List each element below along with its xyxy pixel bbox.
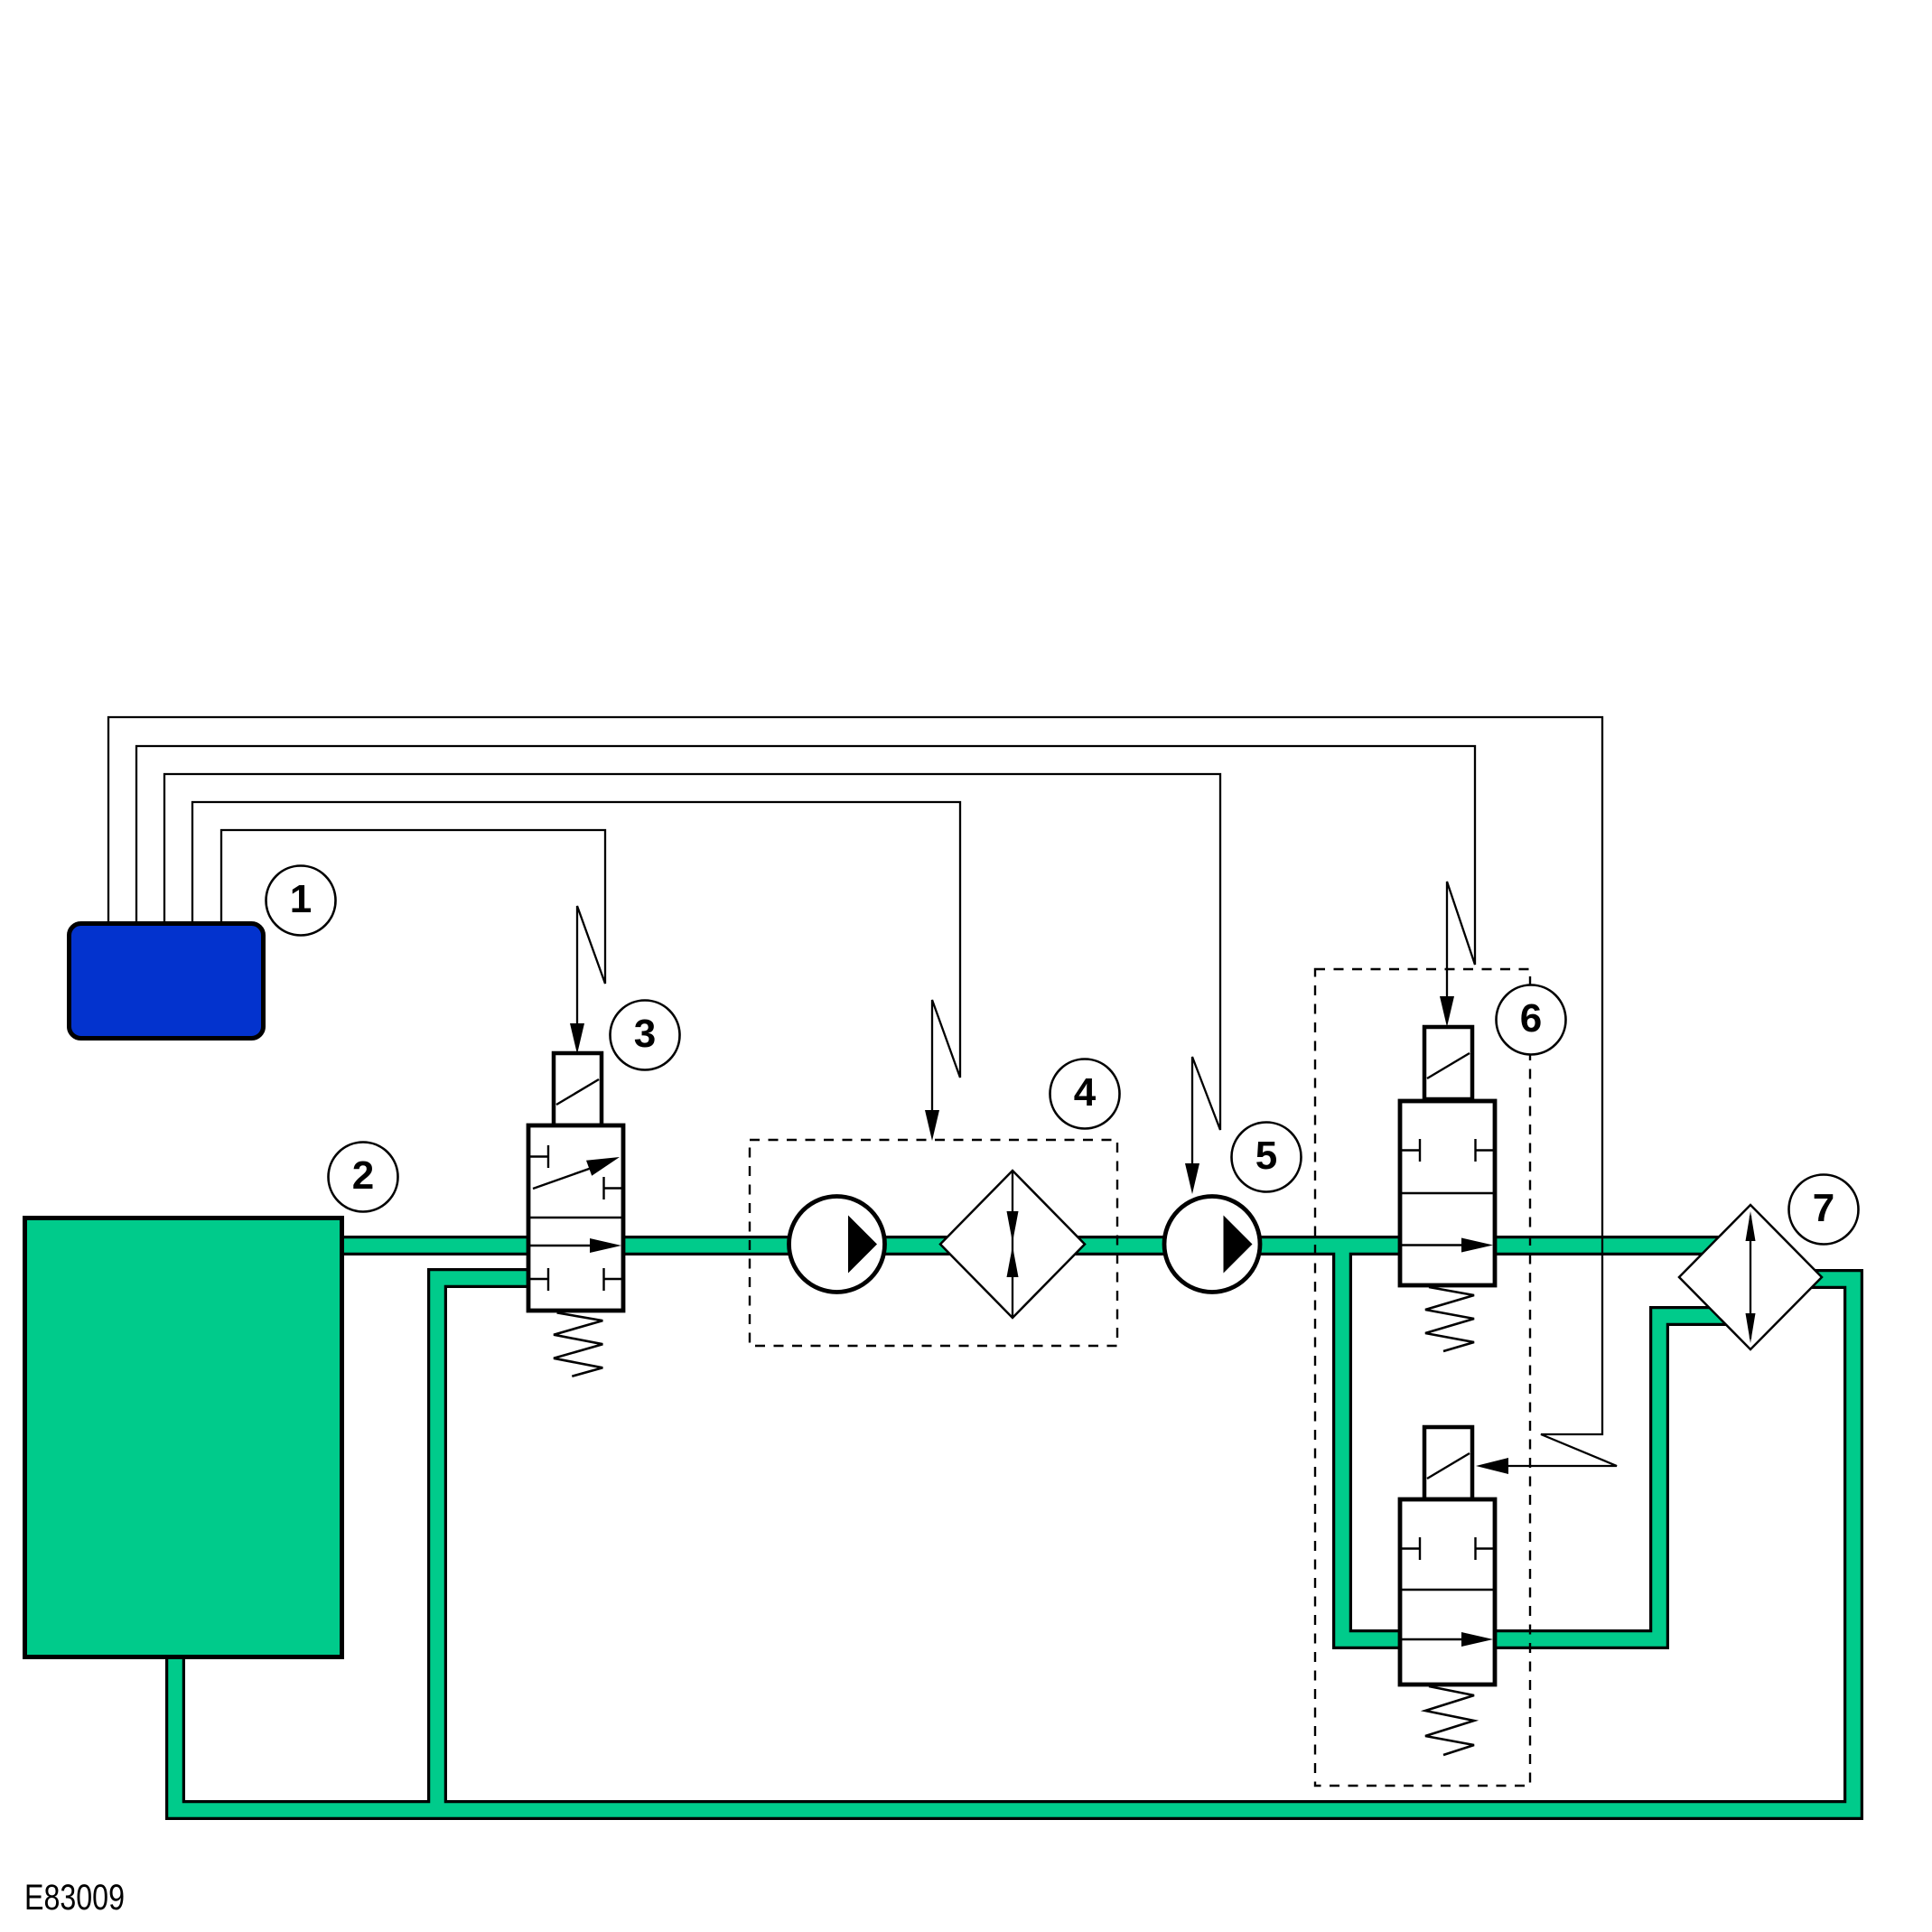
svg-text:5: 5 [1255, 1134, 1277, 1178]
svg-text:3: 3 [634, 1012, 656, 1056]
svg-text:2: 2 [352, 1153, 374, 1198]
svg-text:4: 4 [1074, 1070, 1097, 1115]
svg-text:1: 1 [290, 877, 312, 921]
svg-text:6: 6 [1520, 996, 1542, 1041]
svg-text:E83009: E83009 [24, 1878, 125, 1918]
svg-text:7: 7 [1813, 1186, 1834, 1230]
